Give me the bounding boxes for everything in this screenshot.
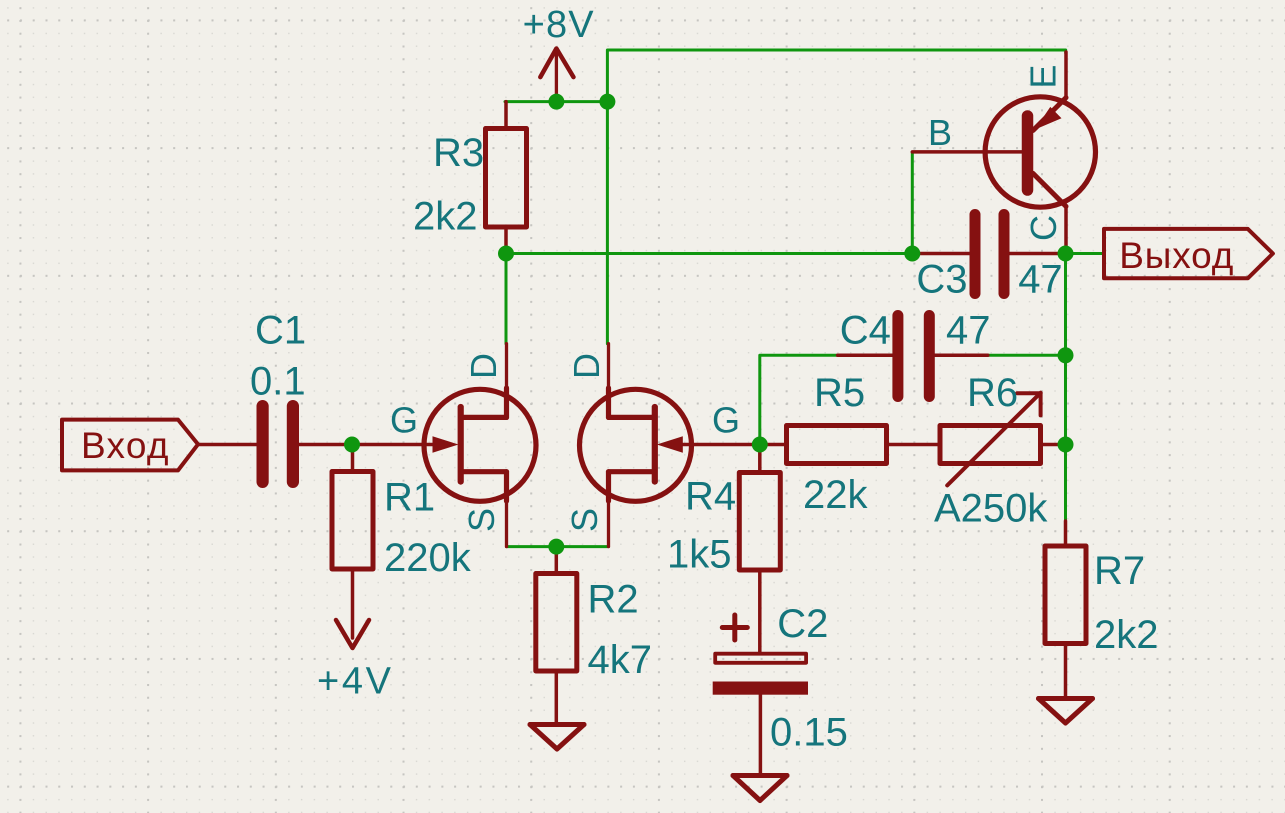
capacitor C3 <box>912 252 969 256</box>
svg-text:+4V: +4V <box>317 661 392 703</box>
svg-text:R1: R1 <box>384 475 435 519</box>
svg-text:D: D <box>463 353 504 379</box>
junction R6 right <box>1058 437 1074 453</box>
transistor Q JFET2 <box>580 344 692 547</box>
svg-text:47: 47 <box>1018 258 1062 302</box>
power +8V <box>540 49 573 102</box>
svg-text:2k2: 2k2 <box>1094 613 1159 657</box>
power +4V <box>336 620 369 648</box>
svg-text:C2: C2 <box>777 602 828 646</box>
resistor R1 <box>351 445 355 639</box>
wire R3 bottom to C3 row <box>506 252 912 255</box>
wire source row <box>507 545 609 548</box>
svg-text:S: S <box>564 508 605 532</box>
svg-text:22k: 22k <box>803 473 868 517</box>
svg-text:R4: R4 <box>685 475 736 519</box>
svg-text:E: E <box>1023 65 1064 89</box>
resistor R6 potentiometer <box>940 426 1041 464</box>
svg-text:B: B <box>928 112 952 153</box>
svg-text:R7: R7 <box>1094 549 1145 593</box>
junction input node <box>344 437 360 453</box>
resistor R4 <box>758 445 762 652</box>
svg-text:1k5: 1k5 <box>667 533 732 577</box>
JFET1 gate pin <box>352 443 435 447</box>
label Вход <box>62 420 198 471</box>
svg-text:R2: R2 <box>588 578 639 622</box>
svg-text:R5: R5 <box>814 371 865 415</box>
capacitor C4 <box>838 354 893 358</box>
junction sources <box>548 539 564 555</box>
junction base node <box>904 246 920 262</box>
resistor R2 <box>555 547 559 723</box>
wire transistor base vertical <box>911 152 914 253</box>
svg-text:R3: R3 <box>433 131 484 175</box>
ground below R2 <box>530 725 584 750</box>
wire +8V rail horizontal <box>505 100 607 103</box>
junction gate2 node <box>752 437 768 453</box>
junction output node <box>1058 246 1074 262</box>
svg-text:C3: C3 <box>916 258 967 302</box>
svg-text:0.15: 0.15 <box>770 710 848 754</box>
junction C4 right <box>1058 347 1074 363</box>
svg-text:4k7: 4k7 <box>588 638 653 682</box>
ground below R7 <box>1039 699 1093 724</box>
svg-text:47: 47 <box>946 309 991 353</box>
svg-text:C: C <box>1023 215 1064 241</box>
svg-text:G: G <box>712 400 740 441</box>
wire right rail collector to R7 <box>1064 254 1067 522</box>
wire output node to label <box>1066 252 1105 255</box>
junction +8V <box>548 94 564 110</box>
svg-text:0.1: 0.1 <box>250 360 306 404</box>
svg-text:D: D <box>566 353 607 379</box>
wire top rail to transistor emitter <box>607 50 1065 102</box>
junction R3 bottom <box>498 246 514 262</box>
label Выход <box>1104 229 1273 278</box>
svg-text:G: G <box>390 400 418 441</box>
svg-text:220k: 220k <box>384 536 472 580</box>
svg-text:Выход: Выход <box>1119 235 1233 276</box>
transistor Q JFET1 <box>424 344 536 547</box>
transistor Q1 PNP <box>912 52 1095 254</box>
wire C4 left <box>760 355 838 444</box>
resistor R5 <box>760 443 784 447</box>
ground below C2 <box>733 776 787 801</box>
capacitor C2 polarized <box>722 615 747 640</box>
svg-text:+8V: +8V <box>523 4 595 46</box>
capacitor C1 <box>257 400 300 488</box>
wire C4 right <box>988 354 1066 357</box>
svg-text:S: S <box>461 508 502 532</box>
svg-text:C1: C1 <box>255 309 306 353</box>
junction top rail corner <box>599 94 615 110</box>
resistor R3 <box>504 102 508 254</box>
wire input to C1 <box>198 443 257 447</box>
svg-text:R6: R6 <box>967 371 1018 415</box>
wire R3 bottom to JFET1 drain <box>505 254 508 344</box>
svg-text:2k2: 2k2 <box>413 195 478 239</box>
svg-text:C4: C4 <box>840 309 891 353</box>
JFET2 gate pin <box>680 443 760 447</box>
svg-text:A250k: A250k <box>934 487 1048 531</box>
wire JFET2 drain vertical <box>606 102 609 344</box>
resistor R7 <box>1064 521 1068 697</box>
